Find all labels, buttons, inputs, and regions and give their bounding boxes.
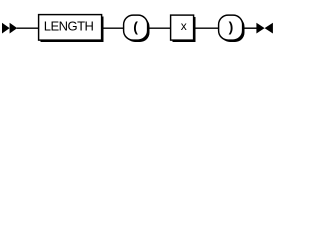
- terminal box ): [219, 15, 245, 42]
- svg-text:LENGTH: LENGTH: [44, 18, 94, 33]
- svg-text:(: (: [133, 18, 138, 34]
- wire from x to ): [194, 27, 219, 29]
- variable box x: [171, 15, 196, 42]
- start symbol >>: [2, 23, 17, 34]
- wire from ) to end symbol: [243, 27, 257, 29]
- end symbol ><: [256, 23, 273, 34]
- svg-text:x: x: [181, 19, 187, 33]
- wire from LENGTH box to (: [102, 27, 124, 29]
- terminal box (: [124, 15, 150, 42]
- wire from ( to x: [148, 27, 171, 29]
- keyword box LENGTH: [39, 15, 104, 42]
- wire from start to LENGTH box: [17, 27, 39, 29]
- svg-text:): ): [229, 18, 234, 34]
